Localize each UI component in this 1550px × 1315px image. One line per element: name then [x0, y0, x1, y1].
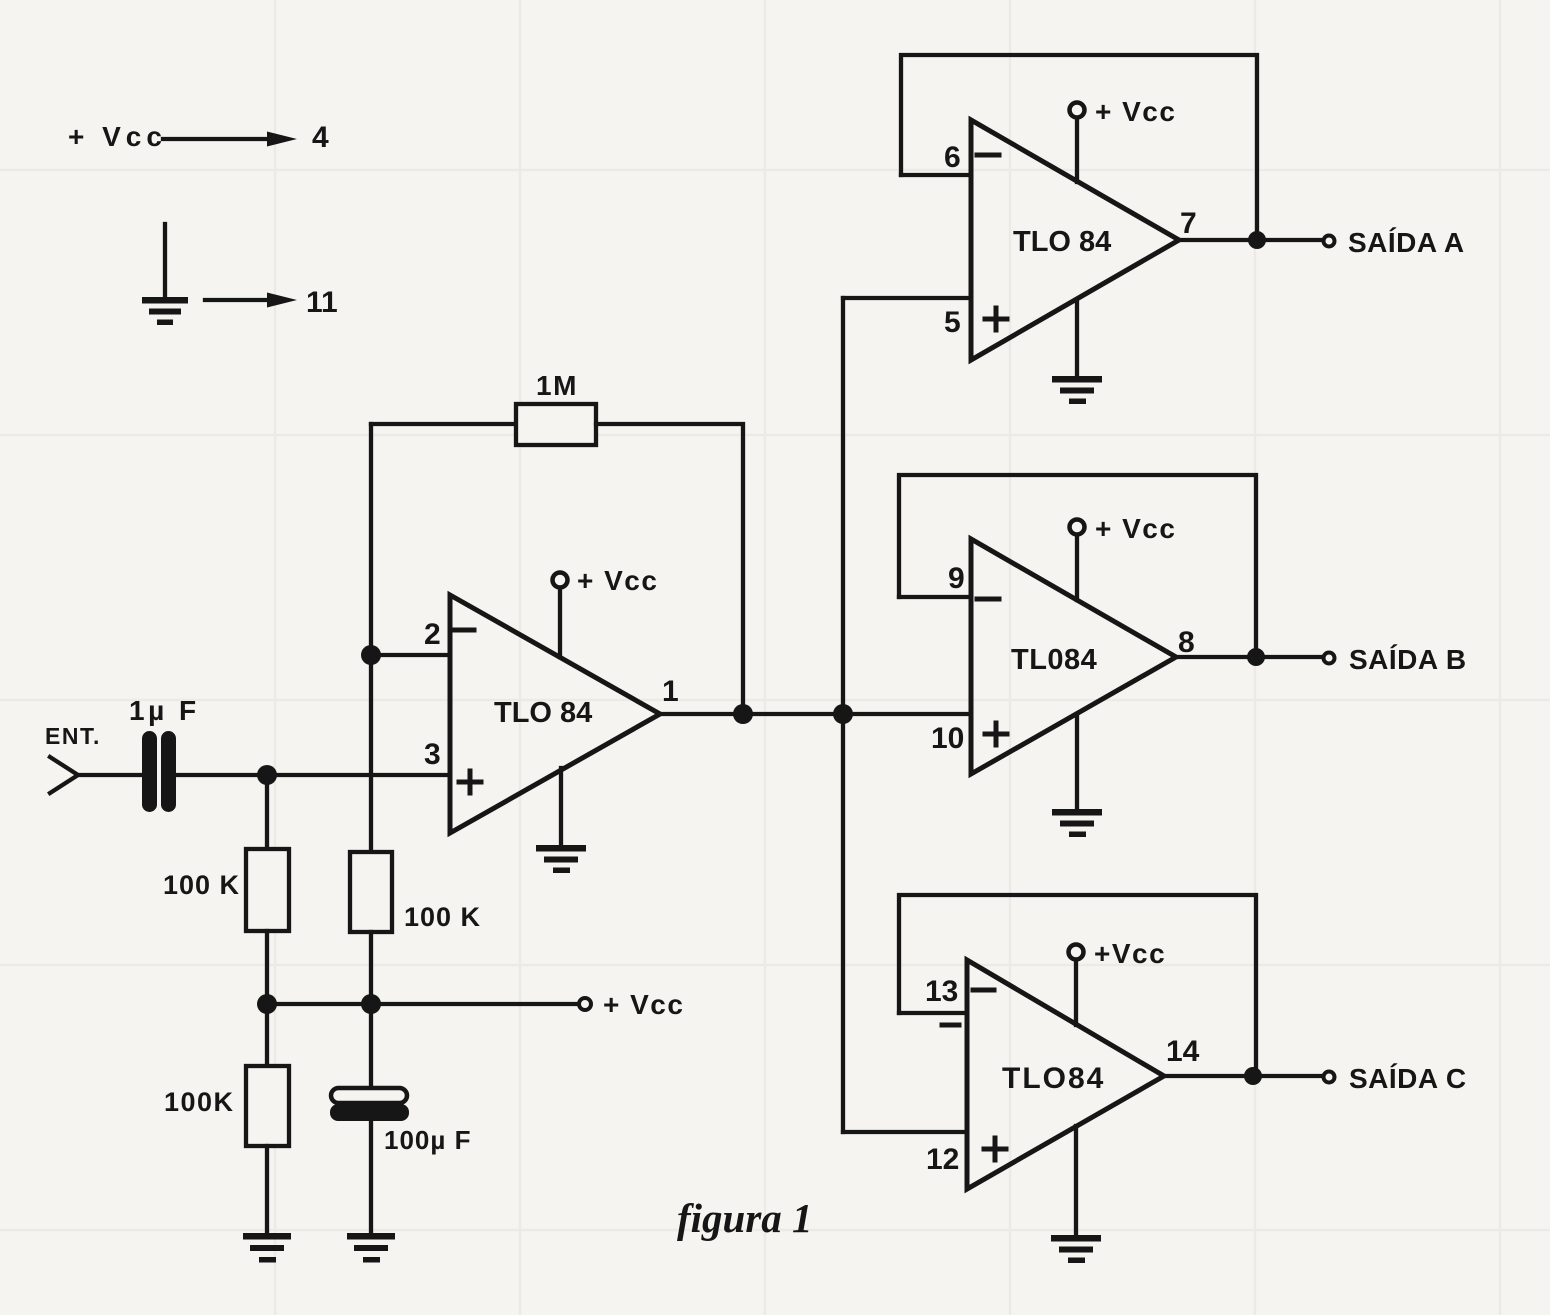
- op-amp U3 TL084 B: [899, 475, 1335, 837]
- node input junction: [257, 765, 277, 785]
- wire node down to R2: [265, 1004, 269, 1066]
- terminal SAIDA A: [1324, 236, 1335, 247]
- ground U4: [1051, 1235, 1101, 1263]
- pin6 minus: [977, 153, 999, 158]
- wire R2 to ground: [265, 1146, 269, 1235]
- terminal SAIDA B: [1324, 653, 1335, 664]
- wire feedback A: [901, 55, 1257, 240]
- svg-text:SAÍDA A: SAÍDA A: [1348, 227, 1465, 258]
- wire C1 to pin3: [176, 773, 450, 777]
- svg-text:figura 1: figura 1: [677, 1195, 813, 1241]
- wire R1 to rail: [265, 931, 269, 1004]
- svg-text:SAÍDA C: SAÍDA C: [1349, 1063, 1467, 1094]
- wire feedback B: [899, 475, 1256, 658]
- svg-text:100 K: 100 K: [404, 902, 481, 932]
- svg-text:+ Vcc: + Vcc: [603, 989, 684, 1020]
- svg-text:3: 3: [424, 738, 441, 771]
- ground R2: [243, 1233, 291, 1263]
- svg-text:+ Vcc: + Vcc: [577, 565, 658, 596]
- wire node down to R1: [265, 775, 269, 849]
- ground (legend): [142, 224, 188, 325]
- svg-text:1: 1: [662, 675, 679, 708]
- U2 +Vcc terminal: [1070, 103, 1085, 118]
- ground U3: [1052, 809, 1102, 837]
- svg-text:13: 13: [925, 975, 958, 1008]
- wire bus vertical: [841, 298, 845, 1132]
- terminal +Vcc rail: [579, 998, 591, 1010]
- wire: [163, 137, 270, 141]
- svg-text:1M: 1M: [536, 370, 578, 401]
- pin13 minus stub: [942, 1023, 959, 1028]
- pin9 minus: [977, 597, 999, 602]
- svg-text:14: 14: [1166, 1035, 1200, 1068]
- triangle U3: [971, 539, 1176, 774]
- wire U1 Vcc: [558, 588, 562, 657]
- wire U4 output: [1164, 1074, 1322, 1078]
- svg-text:+ Vcc: + Vcc: [68, 121, 167, 152]
- ground C2: [347, 1233, 395, 1263]
- wire feedback C: [899, 895, 1256, 1076]
- svg-text:11: 11: [306, 286, 338, 319]
- wire U3 Vcc: [1075, 535, 1079, 600]
- U1 +Vcc terminal: [553, 573, 568, 588]
- pin13 minus: [973, 988, 994, 993]
- op-amp U2 TLO84 A: [843, 55, 1335, 404]
- node pin2: [361, 645, 381, 665]
- wire U2 Vcc: [1075, 118, 1079, 182]
- svg-text:9: 9: [948, 562, 965, 595]
- resistor R3 100K: [350, 852, 392, 932]
- wire node to pin2: [371, 653, 450, 657]
- ground U1: [536, 845, 586, 873]
- resistor R1 100K: [246, 849, 289, 931]
- wire pin5 A: [843, 296, 971, 300]
- svg-text:1µ F: 1µ F: [129, 695, 200, 726]
- svg-text:6: 6: [944, 141, 961, 174]
- wire U2 output: [1179, 238, 1322, 242]
- wire R3 to rail: [369, 932, 373, 1004]
- svg-text:SAÍDA B: SAÍDA B: [1349, 644, 1467, 675]
- svg-text:100K: 100K: [164, 1087, 235, 1117]
- wire +Vcc rail: [267, 1002, 578, 1006]
- wire output bus: [660, 712, 971, 716]
- svg-text:+ Vcc: + Vcc: [1095, 96, 1176, 127]
- node output U1: [733, 704, 753, 724]
- node rail mid: [361, 994, 381, 1014]
- node bus: [833, 704, 853, 724]
- svg-text:TLO 84: TLO 84: [494, 697, 592, 729]
- op-amp U1 TLO84: [450, 595, 660, 833]
- wire fb A to pin6: [901, 173, 971, 177]
- legend arrow to pin 11: [205, 293, 297, 308]
- wire feedback top left: [371, 422, 516, 426]
- svg-text:8: 8: [1178, 626, 1195, 659]
- legend +Vcc arrow to pin 4: [163, 132, 297, 147]
- node rail left: [257, 994, 277, 1014]
- node out B: [1247, 648, 1265, 666]
- svg-text:5: 5: [944, 306, 961, 339]
- wire U2 ground: [1075, 300, 1079, 377]
- svg-text:+ Vcc: + Vcc: [1095, 513, 1176, 544]
- svg-text:TLO 84: TLO 84: [1013, 226, 1111, 258]
- wire U3 output: [1176, 655, 1322, 659]
- svg-text:12: 12: [926, 1143, 959, 1176]
- wire U1 ground: [559, 768, 563, 846]
- node out C: [1244, 1067, 1262, 1085]
- svg-text:7: 7: [1180, 207, 1197, 240]
- wire fb C to pin13: [899, 1011, 967, 1015]
- wire C2 to ground: [369, 1121, 373, 1235]
- svg-text:100 K: 100 K: [163, 870, 240, 900]
- resistor R4 1M: [516, 404, 596, 445]
- svg-text:10: 10: [931, 722, 964, 755]
- wire U4 Vcc: [1074, 960, 1078, 1025]
- wire fb B to pin9: [899, 595, 971, 599]
- svg-text:TL084: TL084: [1011, 644, 1097, 676]
- wire pin2 node vertical: [369, 424, 373, 852]
- pin5 plus: [985, 308, 1007, 330]
- wire U3 ground: [1075, 714, 1079, 810]
- terminal SAIDA C: [1324, 1072, 1335, 1083]
- svg-text:TLO84: TLO84: [1002, 1062, 1105, 1095]
- svg-text:2: 2: [424, 618, 441, 651]
- wire rail mid down to C2: [369, 1004, 373, 1089]
- svg-text:4: 4: [312, 121, 329, 154]
- wire input: [50, 757, 78, 793]
- U4 +Vcc terminal: [1069, 945, 1084, 960]
- wire feedback top right: [596, 424, 743, 714]
- ground U2: [1052, 376, 1102, 404]
- pin3 plus: [459, 771, 481, 793]
- triangle U4: [967, 960, 1164, 1189]
- capacitor C2 100uF: [330, 1088, 409, 1121]
- triangle U2: [971, 120, 1179, 360]
- U3 +Vcc terminal: [1070, 520, 1085, 535]
- wire U4 ground: [1074, 1126, 1078, 1236]
- wire ENT to C1: [76, 773, 143, 777]
- resistor R2 100K: [246, 1066, 289, 1146]
- svg-text:+Vcc: +Vcc: [1094, 938, 1166, 969]
- pin10 plus: [985, 723, 1007, 745]
- pin2 minus: [455, 628, 474, 633]
- op-amp U4 TLO84 C: [843, 895, 1335, 1263]
- wire pin12 C: [843, 1130, 967, 1134]
- capacitor C1 1uF: [142, 731, 176, 812]
- svg-text:100µ F: 100µ F: [384, 1125, 471, 1155]
- pin12 plus: [984, 1138, 1006, 1160]
- svg-text:ENT.: ENT.: [45, 723, 101, 749]
- node out A: [1248, 231, 1266, 249]
